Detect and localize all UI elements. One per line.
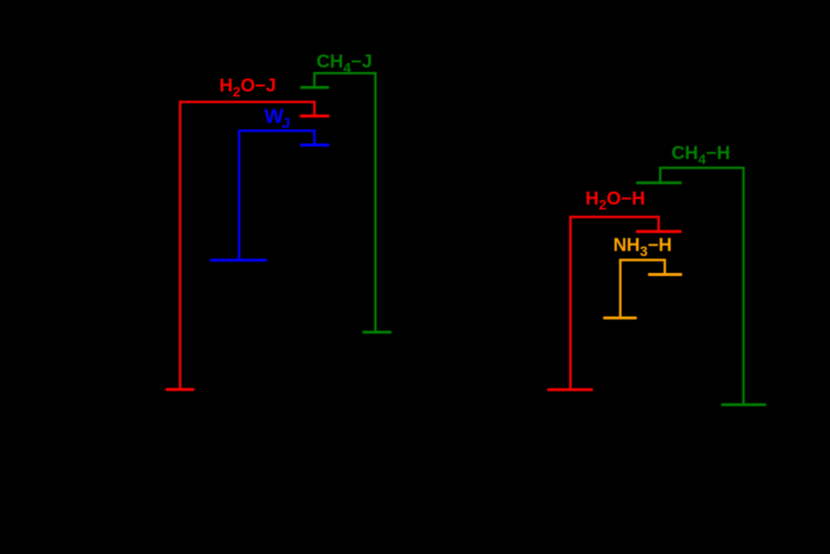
wire CH4-H left arm (659, 167, 661, 183)
wire CH4-J right vertical (374, 72, 376, 332)
wire H2O-H top bar (569, 216, 659, 218)
bracket H2O-H (red, H water) (547, 216, 681, 390)
wire CH4-H bottom cap (721, 403, 766, 406)
wire H2O-J bottom cap (166, 388, 195, 391)
wire NH3-H top bar (619, 259, 666, 261)
wire H2O-H left vertical (569, 216, 571, 390)
bracket W_J (blue, Jupiter W) (210, 130, 329, 261)
wire W-J right arm (313, 130, 315, 145)
bracket H2O-J (red, Jupiter water) (166, 101, 330, 390)
wire CH4-J bottom cap (362, 331, 391, 334)
bracket CH4-H (green, H methane) (636, 167, 766, 405)
wire H2O-H bottom cap (547, 388, 593, 391)
wire CH4-H right vertical (742, 167, 744, 405)
wire NH3-H left vertical (619, 259, 621, 318)
wire CH4-H left cap (636, 181, 681, 184)
wire NH3-H right arm (664, 259, 666, 275)
bracket NH3-H (orange, H ammonia) (603, 259, 682, 318)
wire H2O-J top bar (179, 101, 315, 103)
wire NH3-H bottom cap (603, 316, 637, 319)
wire H2O-J left vertical (179, 101, 181, 390)
wire H2O-H right cap (636, 230, 682, 233)
wire CH4-J left arm (313, 72, 315, 87)
wire CH4-J left cap (300, 86, 329, 89)
wire W-J top bar (238, 129, 315, 131)
wire NH3-H right cap (648, 273, 682, 276)
wire H2O-J right cap (300, 115, 329, 118)
wire H2O-J right arm (313, 101, 315, 116)
wire W-J bottom cap (210, 259, 267, 262)
bracket CH4-J (green, Jupiter methane) (300, 72, 391, 332)
wire CH4-J top bar (313, 72, 376, 74)
wire W-J left vertical (238, 130, 240, 261)
wire CH4-H top bar (659, 167, 744, 169)
wire H2O-H right arm (657, 216, 659, 232)
wire W-J right cap (300, 144, 329, 147)
